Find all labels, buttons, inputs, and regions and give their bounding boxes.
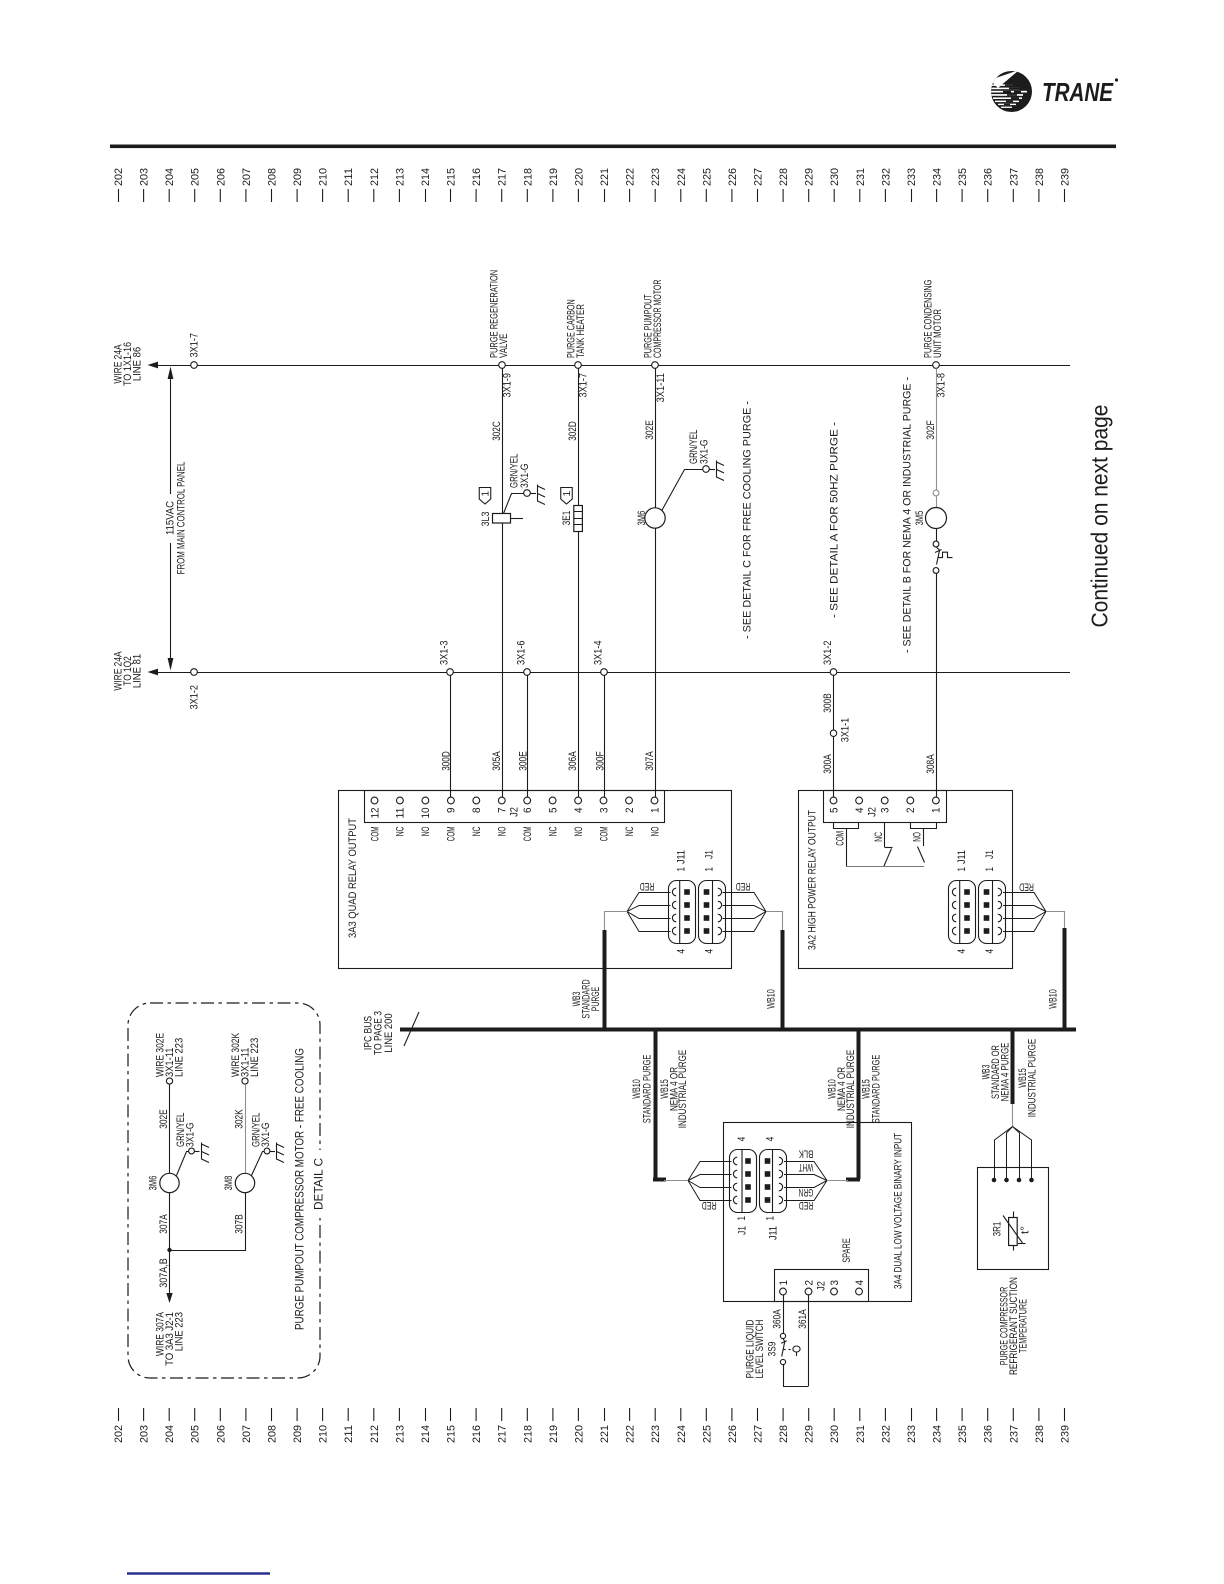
svg-text:216: 216: [471, 1425, 483, 1443]
svg-text:214: 214: [420, 1425, 432, 1443]
svg-text:3M6: 3M6: [636, 511, 648, 526]
wire 302C: [502, 368, 504, 513]
svg-text:230: 230: [829, 168, 841, 186]
terminal GRN/YEL 3X1-G (detail C 3M8): [264, 1148, 270, 1154]
svg-text:208: 208: [267, 1425, 279, 1443]
svg-text:219: 219: [548, 168, 560, 186]
svg-text:NC: NC: [873, 832, 885, 842]
svg-text:3: 3: [880, 808, 892, 814]
coil right stub: [511, 518, 524, 520]
svg-text:224: 224: [676, 1425, 688, 1443]
wire bundle to WB3 (gray): [605, 912, 628, 933]
svg-text:231: 231: [855, 168, 867, 186]
wire WB10/WB15 right (heavy): [857, 1029, 861, 1179]
svg-text:307A: 307A: [158, 1214, 170, 1234]
chassis ground (3M6): [717, 461, 725, 481]
wire 360A (J2-1 to level switch): [783, 1295, 785, 1334]
svg-text:207: 207: [241, 168, 253, 186]
svg-text:3X1-G: 3X1-G: [185, 1123, 197, 1148]
svg-text:1: 1: [649, 808, 661, 814]
svg-text:- SEE DETAIL C FOR FREE: - SEE DETAIL C FOR FREE COOLING PURGE -: [742, 401, 754, 639]
302F inline contact: [933, 490, 939, 496]
wire 302D: [578, 368, 580, 505]
svg-text:1: 1: [481, 490, 492, 496]
svg-text:3X1-8: 3X1-8: [936, 373, 948, 398]
svg-text:4: 4: [676, 949, 688, 954]
svg-text:307A: 307A: [644, 751, 656, 771]
header rule: [110, 145, 1116, 149]
svg-text:234: 234: [932, 168, 944, 186]
svg-text:COM: COM: [522, 827, 534, 842]
svg-text:2: 2: [803, 1280, 815, 1286]
svg-text:COMPRESSOR MOTOR: COMPRESSOR MOTOR: [652, 280, 664, 358]
wire 308A (3M5 to 3A2 J2-1): [936, 573, 938, 796]
wire bundle link (gray, 3A4 right): [827, 1180, 848, 1182]
svg-text:232: 232: [880, 1425, 892, 1443]
motor 3M6: [645, 508, 665, 528]
node wire 302E (detail C): [166, 1078, 172, 1084]
svg-text:202: 202: [113, 1425, 125, 1443]
wire WB3 STANDARD PURGE (heavy): [603, 930, 607, 1029]
svg-text:204: 204: [164, 168, 176, 186]
3A2 COM bracket: [834, 823, 859, 829]
svg-text:209: 209: [292, 168, 304, 186]
svg-text:3A4 DUAL LOW VOLTAGE BINAR: 3A4 DUAL LOW VOLTAGE BINARY INPUT: [893, 1133, 905, 1289]
svg-text:222: 222: [625, 168, 637, 186]
wire 307B horizontal link: [170, 1193, 246, 1251]
svg-text:NEMA 4 PURGE: NEMA 4 PURGE: [1000, 1043, 1012, 1102]
svg-text:TRANE: TRANE: [1042, 77, 1114, 107]
svg-text:302C: 302C: [491, 421, 503, 441]
motor 3M6 (detail C): [160, 1173, 179, 1192]
svg-text:COM: COM: [598, 827, 610, 842]
3S9 return wire: [784, 1365, 809, 1387]
svg-text:INDUSTRIAL PURGE: INDUSTRIAL PURGE: [677, 1050, 689, 1128]
svg-text:210: 210: [318, 1425, 330, 1443]
svg-text:220: 220: [573, 1425, 585, 1443]
svg-text:FROM MAIN CONTROL PANEL: FROM MAIN CONTROL PANEL: [176, 462, 188, 575]
svg-text:202: 202: [113, 168, 125, 186]
wire 300B: [833, 675, 835, 730]
svg-text:212: 212: [369, 1425, 381, 1443]
node 3X1-7 on top bus: [191, 362, 198, 369]
svg-text:302D: 302D: [567, 421, 579, 441]
svg-text:218: 218: [522, 1425, 534, 1443]
svg-text:229: 229: [804, 168, 816, 186]
3A4 J1 wire bundle: [688, 1162, 732, 1201]
svg-text:4: 4: [704, 949, 716, 954]
svg-text:9: 9: [446, 808, 458, 814]
3A2 NO bracket and contact: [911, 823, 937, 829]
svg-text:7: 7: [497, 808, 509, 814]
svg-text:11: 11: [395, 808, 407, 819]
svg-text:PURGE: PURGE: [590, 987, 602, 1012]
svg-text:3X1-G: 3X1-G: [260, 1123, 272, 1148]
node 3X1-6 on bottom bus: [524, 669, 531, 676]
svg-text:LINE 86: LINE 86: [132, 347, 144, 381]
svg-text:RED: RED: [736, 880, 751, 892]
node purge pumpout compressor motor on top bus: [652, 362, 659, 369]
svg-text:215: 215: [446, 168, 458, 186]
svg-text:LINE 223: LINE 223: [174, 1312, 186, 1351]
svg-text:- SEE DETAIL A FOR 50HZ: - SEE DETAIL A FOR 50HZ PURGE -: [829, 422, 841, 618]
svg-text:203: 203: [139, 168, 151, 186]
wire link to 3R1 bundle (gray): [1012, 1104, 1014, 1127]
svg-text:3X1-2: 3X1-2: [189, 685, 201, 710]
svg-text:237: 237: [1008, 168, 1020, 186]
module 3A3 QUAD RELAY OUTPUT box: [339, 791, 732, 969]
node purge carbon tank heater on top bus: [575, 362, 582, 369]
svg-text:205: 205: [190, 1425, 202, 1443]
svg-text:VALVE: VALVE: [498, 334, 510, 359]
svg-text:220: 220: [573, 168, 585, 186]
svg-text:3X1-2: 3X1-2: [822, 641, 834, 666]
svg-text:1: 1: [676, 867, 688, 872]
svg-text:4: 4: [984, 949, 996, 954]
svg-text:302E: 302E: [644, 420, 656, 440]
3A3 connector J1: [699, 881, 726, 944]
terminal GRN/YEL 3X1-G (3M6): [703, 466, 710, 473]
3A2 relay common wire: [846, 866, 924, 868]
3M5 overload contact upper: [936, 529, 938, 542]
3A2 J2 terminals 5-1: [828, 797, 942, 813]
svg-text:WB10: WB10: [1048, 989, 1060, 1009]
svg-text:308A: 308A: [925, 754, 937, 774]
svg-text:NC: NC: [624, 826, 636, 836]
thermistor 3R1: [1013, 1212, 1015, 1218]
svg-text:3E1: 3E1: [561, 511, 573, 526]
svg-text:211: 211: [343, 168, 355, 186]
terminal 3X1-1: [830, 730, 836, 736]
level switch 3S9: [780, 1333, 785, 1338]
svg-text:J2: J2: [867, 807, 879, 817]
svg-text:3M5: 3M5: [914, 511, 926, 526]
node wire 302K (detail C): [242, 1078, 248, 1084]
svg-text:NO: NO: [649, 826, 661, 836]
svg-text:3L3: 3L3: [480, 512, 492, 527]
coil ground branch wire: [504, 494, 524, 514]
svg-text:228: 228: [778, 1425, 790, 1443]
line number scale - bottom (202-239): [113, 1408, 1072, 1443]
svg-text:211: 211: [343, 1425, 355, 1443]
svg-text:J2: J2: [816, 1281, 828, 1291]
svg-text:232: 232: [880, 168, 892, 186]
svg-text:3X1-6: 3X1-6: [516, 641, 528, 666]
svg-text:4: 4: [854, 808, 866, 814]
svg-text:LINE 223: LINE 223: [249, 1038, 261, 1077]
3M6 ground branch (detail C): [177, 1152, 189, 1176]
svg-text:206: 206: [215, 168, 227, 186]
wire 307A (detail C): [169, 1193, 171, 1250]
svg-text:210: 210: [318, 168, 330, 186]
3R1 wire bundle: [995, 1127, 1032, 1179]
TRANE logo globe: [990, 70, 1032, 112]
svg-text:221: 221: [599, 168, 611, 186]
svg-text:STANDARD PURGE: STANDARD PURGE: [642, 1055, 654, 1124]
svg-text:8: 8: [471, 808, 483, 814]
svg-text:215: 215: [446, 1425, 458, 1443]
3A4 J11 wire bundle: [784, 1162, 827, 1201]
svg-text:1: 1: [562, 490, 573, 496]
wire WB3/WB15 to 3R1 (heavy): [1011, 1029, 1015, 1104]
svg-text:3M8: 3M8: [223, 1176, 235, 1191]
svg-text:2: 2: [624, 808, 636, 814]
svg-text:RED: RED: [640, 880, 655, 892]
wire 302E (detail C): [169, 1084, 171, 1173]
svg-text:302K: 302K: [234, 1109, 246, 1129]
svg-text:NO: NO: [573, 826, 585, 836]
wire 361A (level switch to J2-2): [808, 1295, 810, 1386]
motor 3M8 (detail C): [235, 1173, 254, 1192]
3A3 J11 wire bundle: [627, 893, 671, 932]
flag 1 (3L3): [479, 488, 491, 505]
svg-text:235: 235: [957, 168, 969, 186]
svg-text:224: 224: [676, 168, 688, 186]
svg-text:WB10: WB10: [766, 989, 778, 1009]
wire 24A top bus (line 202): [152, 365, 1070, 367]
svg-text:3X1-4: 3X1-4: [593, 641, 605, 666]
svg-text:206: 206: [215, 1425, 227, 1443]
svg-text:NO: NO: [912, 832, 924, 842]
svg-text:LINE 223: LINE 223: [174, 1038, 186, 1077]
svg-text:RED: RED: [1019, 881, 1034, 893]
svg-text:217: 217: [497, 1425, 509, 1443]
svg-text:3X1-7: 3X1-7: [189, 333, 201, 358]
svg-text:238: 238: [1034, 1425, 1046, 1443]
svg-text:229: 229: [804, 1425, 816, 1443]
wire 300D (bus 3X1-3 to 3A3 J2-9): [450, 675, 452, 797]
3A3 J1 wire bundle: [723, 893, 767, 932]
3A2 J1 wire bundle: [1003, 893, 1046, 932]
3A4 connector J11: [760, 1150, 787, 1213]
svg-text:204: 204: [164, 1425, 176, 1443]
svg-text:LEVEL SWITCH: LEVEL SWITCH: [754, 1320, 766, 1379]
svg-text:3M6: 3M6: [148, 1176, 160, 1191]
wire WB10 (heavy, 3A2): [1063, 928, 1067, 1029]
svg-text:306A: 306A: [567, 751, 579, 771]
svg-text:1: 1: [778, 1280, 790, 1286]
svg-text:219: 219: [548, 1425, 560, 1443]
svg-text:300E: 300E: [518, 751, 530, 771]
wire 300F (bus 3X1-4 to 3A3 J2-3): [604, 675, 606, 797]
svg-text:227: 227: [753, 168, 765, 186]
wire 24A bottom bus (line 202): [152, 672, 1070, 674]
svg-text:COM: COM: [446, 827, 458, 842]
svg-text:3X1-G: 3X1-G: [519, 464, 531, 489]
node 3X1-4 on bottom bus: [601, 669, 608, 676]
chassis ground (3L3): [538, 485, 546, 505]
3A3 terminal strip J2: [365, 791, 665, 823]
svg-text:360A: 360A: [772, 1309, 784, 1329]
svg-text:228: 228: [778, 168, 790, 186]
svg-text:J11: J11: [768, 1226, 780, 1240]
svg-text:LINE 200: LINE 200: [383, 1013, 395, 1052]
svg-text:TEMPERATURE: TEMPERATURE: [1018, 1299, 1030, 1353]
svg-text:4: 4: [573, 808, 585, 814]
svg-text:J2: J2: [509, 807, 521, 817]
svg-text:SPARE: SPARE: [841, 1238, 853, 1263]
svg-text:305A: 305A: [491, 751, 503, 771]
svg-text:307B: 307B: [234, 1214, 246, 1234]
svg-text:UNIT MOTOR: UNIT MOTOR: [932, 309, 944, 358]
svg-text:3X1-G: 3X1-G: [699, 440, 711, 465]
svg-text:4: 4: [956, 949, 968, 954]
svg-text:TANK HEATER: TANK HEATER: [575, 304, 587, 358]
3A2 NC contact: [884, 823, 886, 848]
svg-text:234: 234: [932, 1425, 944, 1443]
svg-text:J1: J1: [704, 850, 716, 859]
svg-text:3: 3: [829, 1280, 841, 1286]
svg-text:3A3 QUAD RELAY OUTPUT: 3A3 QUAD RELAY OUTPUT: [347, 818, 359, 938]
svg-text:J1: J1: [984, 850, 996, 859]
wire 300E (bus 3X1-6 to 3A3 J2-6): [527, 675, 529, 797]
wire 300A: [833, 736, 835, 796]
3A2 terminal strip J2: [824, 791, 947, 823]
chassis ground (detail C 3M8): [277, 1143, 285, 1163]
wire bundle to WB10 (gray): [767, 912, 783, 933]
IPC bus (heavy): [400, 1028, 1076, 1032]
svg-text:5: 5: [547, 808, 559, 814]
wire bundle to WB10 (gray, 3A2): [1047, 912, 1065, 931]
heater element 3E1: [574, 506, 583, 532]
svg-text:208: 208: [267, 168, 279, 186]
svg-text:STANDARD PURGE: STANDARD PURGE: [871, 1055, 883, 1124]
svg-text:231: 231: [855, 1425, 867, 1443]
svg-text:221: 221: [599, 1425, 611, 1443]
node 3X1-2 on bottom bus (3A2): [830, 669, 837, 676]
wire 302K (detail C, gray): [245, 1084, 247, 1173]
3A4 J2 terminal strip: [775, 1270, 869, 1302]
svg-text:238: 238: [1034, 168, 1046, 186]
node 3X1-2 on bottom bus (left): [191, 669, 198, 676]
svg-text:212: 212: [369, 168, 381, 186]
svg-text:Continued on next page: Continued on next page: [1087, 405, 1113, 628]
svg-text:3S9: 3S9: [767, 1342, 779, 1357]
3A3 J2 terminals 12-1 with COM/NC/NO labels: [369, 797, 661, 841]
svg-text:J11: J11: [956, 850, 968, 864]
wire 307A,B with arrow: [169, 1250, 171, 1298]
svg-text:226: 226: [727, 1425, 739, 1443]
wire 306A (heater to 3A3 J2-4): [578, 531, 580, 797]
svg-text:3X1-3: 3X1-3: [439, 641, 451, 666]
IPC bus break slash: [404, 1012, 419, 1046]
junction 307A/307B: [167, 1248, 171, 1252]
svg-text:233: 233: [906, 1425, 918, 1443]
svg-text:225: 225: [701, 168, 713, 186]
svg-text:307A,B: 307A,B: [158, 1258, 170, 1287]
svg-text:INDUSTRIAL PURGE: INDUSTRIAL PURGE: [845, 1050, 857, 1128]
wire WB10/WB15 left (heavy): [654, 1029, 658, 1179]
node purge regeneration valve on top bus: [499, 362, 506, 369]
svg-text:207: 207: [241, 1425, 253, 1443]
svg-text:NC: NC: [547, 826, 559, 836]
svg-text:4: 4: [765, 1137, 777, 1142]
svg-text:203: 203: [139, 1425, 151, 1443]
3A4 connector J1: [730, 1150, 757, 1213]
svg-text:COM: COM: [369, 827, 381, 842]
svg-text:4: 4: [736, 1137, 748, 1142]
svg-text:300D: 300D: [441, 751, 453, 771]
svg-text:NO: NO: [497, 826, 509, 836]
svg-text:1: 1: [956, 867, 968, 872]
svg-text:3R1: 3R1: [992, 1222, 1004, 1237]
svg-text:3A2 HIGH POWER RELAY OUTPU: 3A2 HIGH POWER RELAY OUTPUT: [807, 810, 819, 950]
svg-text:230: 230: [829, 1425, 841, 1443]
svg-text:205: 205: [190, 168, 202, 186]
svg-text:PURGE PUMPOUT COMPRESSOR MO: PURGE PUMPOUT COMPRESSOR MOTOR - FREE CO…: [295, 1048, 307, 1330]
svg-text:1: 1: [984, 867, 996, 872]
svg-text:302F: 302F: [925, 420, 937, 440]
module 3R1 sensor box: [978, 1168, 1049, 1270]
svg-text:213: 213: [394, 1425, 406, 1443]
svg-text:239: 239: [1060, 1425, 1072, 1443]
svg-text:J11: J11: [676, 850, 688, 864]
wire 302F (gray): [936, 368, 938, 490]
svg-text:3X1-9: 3X1-9: [502, 373, 514, 398]
svg-text:227: 227: [753, 1425, 765, 1443]
svg-text:361A: 361A: [797, 1309, 809, 1329]
svg-text:218: 218: [522, 168, 534, 186]
wire 307A (motor to 3A3 J2-1): [655, 528, 657, 797]
svg-text:t°: t°: [1020, 1226, 1032, 1234]
wire WB10 (heavy, 3A3): [781, 930, 785, 1029]
svg-text:302E: 302E: [158, 1109, 170, 1129]
3A2 connector J1: [979, 881, 1006, 944]
3M6 ground branch wire: [662, 470, 703, 511]
3M5 overload contact lower: [933, 568, 939, 574]
node purge condensing unit motor on top bus: [933, 362, 940, 369]
motor 3M5: [926, 508, 947, 529]
svg-text:12: 12: [369, 808, 381, 819]
svg-text:209: 209: [292, 1425, 304, 1443]
svg-text:INDUSTRIAL PURGE: INDUSTRIAL PURGE: [1027, 1039, 1039, 1117]
svg-text:BLK: BLK: [798, 1148, 813, 1160]
svg-text:300A: 300A: [822, 754, 834, 774]
svg-text:J1: J1: [737, 1226, 749, 1235]
svg-text:226: 226: [727, 168, 739, 186]
svg-text:10: 10: [420, 808, 432, 819]
svg-text:239: 239: [1060, 168, 1072, 186]
svg-text:6: 6: [522, 808, 534, 814]
solenoid coil 3L3: [493, 514, 511, 524]
svg-text:1: 1: [736, 1216, 748, 1221]
wire 302E: [655, 368, 657, 508]
svg-text:2: 2: [905, 808, 917, 814]
3A4 J2 terminals 1-4: [778, 1280, 866, 1295]
terminal GRN/YEL 3X1-G (3L3): [524, 490, 531, 497]
svg-text:300B: 300B: [822, 693, 834, 713]
svg-text:235: 235: [957, 1425, 969, 1443]
svg-text:222: 222: [625, 1425, 637, 1443]
DETAIL C dashed boundary: [128, 1003, 320, 1378]
3A2 connector J11: [949, 881, 976, 944]
chassis ground (detail C 3M6): [202, 1143, 210, 1163]
svg-text:237: 237: [1008, 1425, 1020, 1443]
terminal GRN/YEL 3X1-G (detail C 3M6): [189, 1148, 195, 1154]
svg-text:217: 217: [497, 168, 509, 186]
svg-text:COM: COM: [835, 831, 847, 846]
svg-text:300F: 300F: [595, 751, 607, 771]
3A3 connector J11: [669, 881, 696, 944]
flag 1 (3E1): [561, 488, 573, 505]
svg-text:LINE 81: LINE 81: [132, 654, 144, 688]
footer blue rule: [127, 1572, 270, 1574]
svg-text:NC: NC: [471, 826, 483, 836]
svg-text:236: 236: [983, 1425, 995, 1443]
svg-text:NO: NO: [420, 826, 432, 836]
3R1 terminal dots: [992, 1178, 997, 1183]
svg-text:233: 233: [906, 168, 918, 186]
